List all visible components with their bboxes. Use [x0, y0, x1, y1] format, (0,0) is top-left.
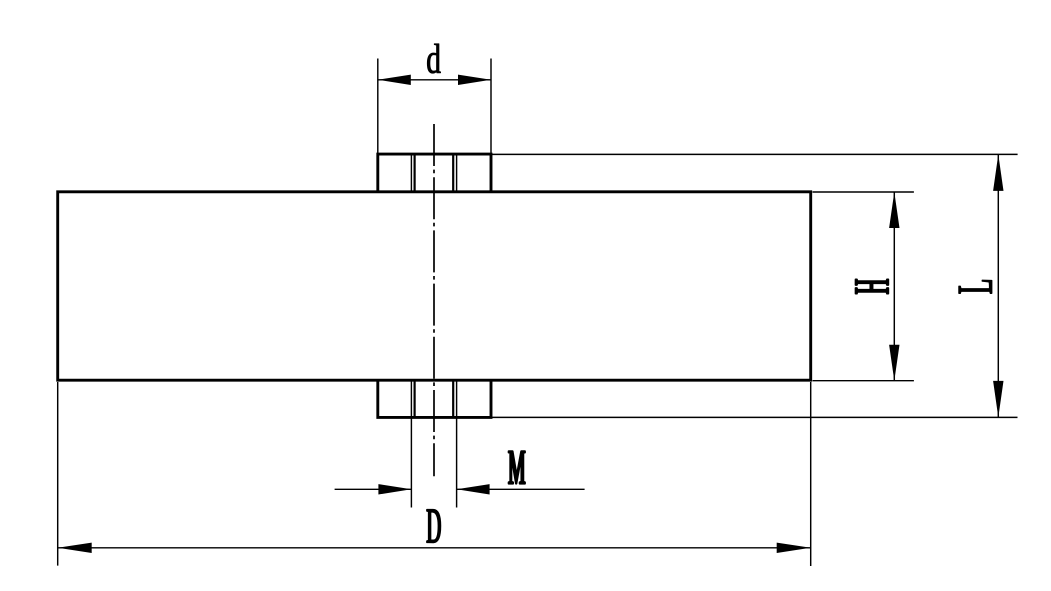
label D — [427, 510, 441, 543]
label M — [509, 451, 525, 483]
dimension H extension line top — [813, 191, 914, 193]
label H — [856, 279, 889, 293]
dimension H arrow bottom — [889, 345, 899, 381]
dimension L arrow bottom — [993, 381, 1003, 418]
dimension d arrow right — [458, 75, 491, 85]
dimension D extension line left — [57, 382, 59, 566]
thread minor line right (bottom boss) — [452, 380, 454, 417]
dimension d extension line left — [377, 59, 379, 155]
dimension L extension line top — [491, 153, 1018, 155]
thread major line right (top boss) — [456, 154, 458, 192]
top boss outline — [378, 154, 491, 192]
thread minor line right (top boss) — [452, 154, 454, 192]
flange body outline — [58, 192, 811, 380]
dimension d line — [378, 79, 491, 81]
dimension H line — [893, 192, 895, 381]
thread major line right (bottom boss) + M extension line — [456, 380, 458, 507]
dimension L arrow top — [993, 154, 1003, 191]
dimension d extension line right — [490, 59, 492, 155]
dimension L line — [997, 154, 999, 417]
dimension M dimension line left tail — [335, 488, 412, 490]
thread major line left (bottom boss) + M extension line — [410, 380, 412, 507]
dimension H extension line bottom — [813, 380, 914, 382]
dimension H arrow top — [889, 192, 899, 228]
dimension M arrow right — [457, 484, 490, 494]
thread minor line left (top boss) — [414, 154, 416, 192]
thread major line left (top boss) — [410, 154, 412, 192]
dimension D extension line right — [810, 382, 812, 566]
dimension D line — [58, 547, 811, 549]
thread minor line left (bottom boss) — [414, 380, 416, 417]
dimension M arrow left — [378, 484, 411, 494]
dimension D arrow left — [58, 543, 92, 553]
dimension d arrow left — [378, 75, 411, 85]
dimension L extension line bottom — [491, 416, 1018, 418]
bottom boss outline — [378, 380, 491, 417]
vertical centerline — [433, 124, 435, 476]
dimension M dimension line right tail — [457, 488, 585, 490]
dimension D arrow right — [777, 543, 811, 553]
label d — [427, 44, 440, 73]
label L — [959, 280, 992, 293]
